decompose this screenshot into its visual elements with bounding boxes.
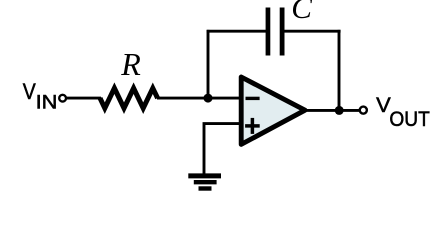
svg-text:OUT: OUT [389, 108, 430, 131]
wire node A up to feedback [207, 30, 210, 98]
resistor R [100, 88, 158, 108]
junction node B (output) [335, 106, 344, 115]
op-amp U1 plus pin [245, 118, 260, 134]
ground [188, 176, 221, 189]
wire feedback down to output node [338, 30, 341, 111]
wire plus input to ground [204, 124, 242, 176]
wire R to op-amp inverting input [157, 97, 244, 100]
svg-text:V: V [23, 79, 36, 104]
capacitor C [266, 8, 285, 56]
svg-text:IN: IN [36, 93, 58, 114]
svg-text:R: R [120, 46, 141, 82]
wire op-amp output to VOUT [304, 109, 360, 112]
junction node A (inverting input) [204, 94, 213, 103]
terminal VOUT [360, 107, 367, 114]
op-amp U1 minus pin [246, 97, 260, 100]
terminal VIN [59, 95, 66, 102]
wire feedback top to C left plate [207, 30, 266, 33]
wire VIN to R [67, 97, 102, 100]
op-amp U1 [241, 77, 305, 144]
label VIN [23, 79, 58, 113]
wire C right plate to output branch [284, 30, 340, 33]
label VOUT [376, 93, 430, 131]
svg-text:C: C [291, 0, 312, 25]
